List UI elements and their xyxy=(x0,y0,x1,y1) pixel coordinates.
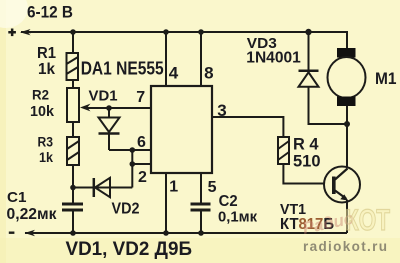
svg-text:3: 3 xyxy=(217,101,226,120)
wire pin 4 xyxy=(165,32,167,86)
svg-text:M1: M1 xyxy=(375,69,397,88)
svg-text:R 4: R 4 xyxy=(293,134,319,153)
wire VD2 line xyxy=(73,187,132,189)
wire motor bottom to collector junction xyxy=(346,106,348,168)
svg-text:VD1: VD1 xyxy=(89,87,118,104)
wire pin 3 xyxy=(212,117,283,137)
svg-text:6-12 В: 6-12 В xyxy=(27,4,73,22)
svg-text:5: 5 xyxy=(208,179,217,196)
capacitor C1 xyxy=(62,204,83,210)
svg-text:R3: R3 xyxy=(38,135,54,150)
wire VD1 anode xyxy=(108,108,110,118)
diode VD3 xyxy=(299,71,319,87)
svg-text:0,22мк: 0,22мк xyxy=(7,206,57,223)
wire C1-bottom rail xyxy=(72,211,74,234)
svg-text:10k: 10k xyxy=(30,103,55,120)
svg-text:1N4001: 1N4001 xyxy=(246,50,301,67)
wire top rail xyxy=(21,32,347,48)
wire VD1 cathode to pin6 line xyxy=(108,134,110,150)
svg-text:510: 510 xyxy=(293,153,321,171)
resistor R3 xyxy=(67,137,79,165)
svg-text:R1: R1 xyxy=(37,45,56,62)
svg-text:4: 4 xyxy=(169,63,179,82)
minus terminal xyxy=(9,230,36,236)
svg-text:1: 1 xyxy=(169,178,178,195)
wire pin 8 xyxy=(200,32,202,86)
svg-text:КОТ: КОТ xyxy=(345,204,390,237)
wire pin 5 bottom xyxy=(200,211,202,233)
svg-text:1k: 1k xyxy=(39,149,53,165)
svg-text:C1: C1 xyxy=(7,189,27,206)
plus terminal xyxy=(8,29,31,37)
svg-text:DA1 NE555: DA1 NE555 xyxy=(81,58,164,78)
wire pin 5 top xyxy=(200,173,202,203)
watermark xyxy=(301,204,390,254)
capacitor C2 xyxy=(191,204,211,210)
wire emitter to bottom rail xyxy=(346,200,348,233)
potentiometer R2 xyxy=(67,88,79,122)
wire R4 to base xyxy=(283,164,324,184)
wire tie down to VD2 xyxy=(131,164,133,188)
wire bottom rail xyxy=(25,232,347,234)
svg-text:8: 8 xyxy=(204,63,213,82)
svg-text:1k: 1k xyxy=(38,61,55,78)
transistor VT1 xyxy=(324,167,360,203)
R2 wiper arrow xyxy=(80,104,91,112)
svg-text:2: 2 xyxy=(138,169,147,186)
motor M1 xyxy=(328,48,366,106)
wire pin6-pin2 tie xyxy=(131,150,133,164)
wire R2 wiper to pin 7 xyxy=(86,107,151,109)
resistor R1 xyxy=(67,53,79,80)
svg-text:6: 6 xyxy=(137,134,146,151)
wire R3-C1 xyxy=(72,165,74,203)
svg-text:7: 7 xyxy=(136,89,145,106)
wire pin 1 xyxy=(165,173,167,233)
diode VD1 xyxy=(99,118,120,134)
svg-text:VD2: VD2 xyxy=(112,201,140,218)
wire pin 6 xyxy=(109,149,151,151)
wire pin 2 xyxy=(132,163,151,165)
wire R1 top xyxy=(72,32,74,53)
op-amp/timer IC DA1 NE555 xyxy=(151,86,212,173)
svg-text:0,1мк: 0,1мк xyxy=(218,209,257,226)
resistor R4 xyxy=(278,137,289,164)
wire R1-R2 xyxy=(72,80,74,88)
diode VD2 xyxy=(94,178,110,197)
wire R2-R3 xyxy=(72,122,74,137)
svg-text:C2: C2 xyxy=(219,193,238,210)
svg-text:radiokot.ru: radiokot.ru xyxy=(303,239,388,254)
svg-text:R2: R2 xyxy=(32,87,49,103)
wire VD3 bottom jog xyxy=(309,87,348,124)
wire VD3 top xyxy=(308,32,310,71)
svg-text:VD1, VD2 Д9Б: VD1, VD2 Д9Б xyxy=(66,239,193,260)
